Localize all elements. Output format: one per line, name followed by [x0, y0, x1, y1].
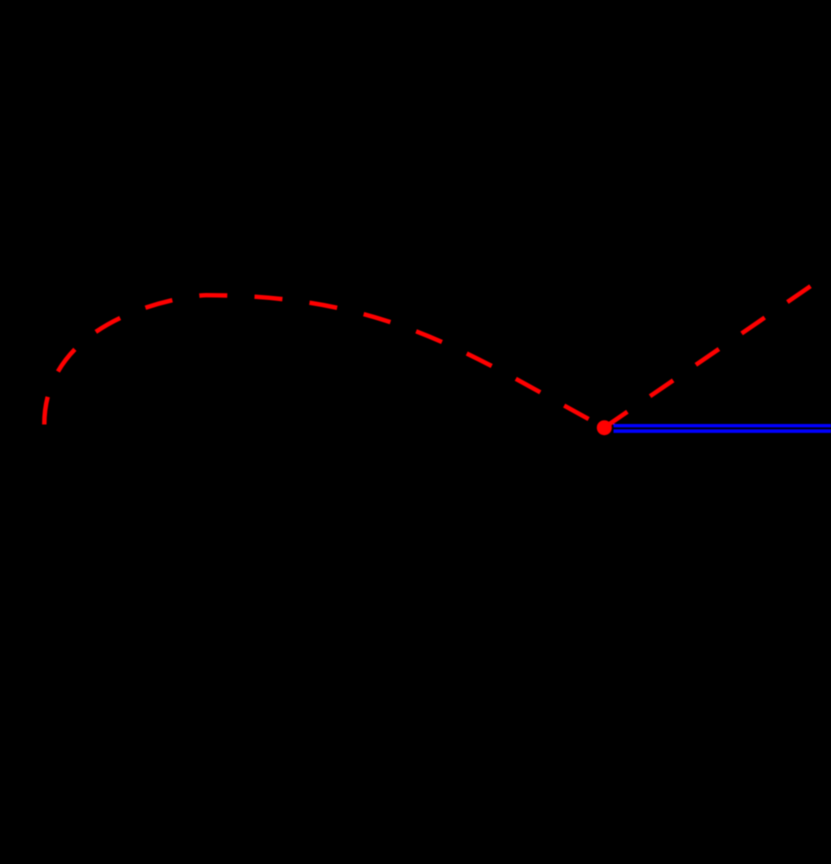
curve f(x) right branch (red dashed straight segment from corner point to upper right) [604, 286, 810, 427]
blue horizontal line lower stripe [614, 429, 831, 433]
blue horizontal line upper stripe [614, 424, 831, 427]
curve f(x) left branch (red dashed concave arc from left tip to corner point) [44, 295, 604, 427]
corner point marker (red dot) [597, 420, 612, 435]
